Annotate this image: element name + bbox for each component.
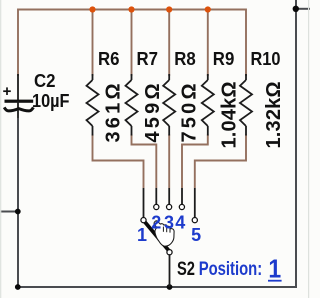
junction dot rail-R9: [205, 6, 211, 12]
switch terminal 4: [179, 204, 184, 209]
svg-text:2: 2: [151, 213, 161, 233]
hand cursor: [154, 221, 174, 246]
svg-text:1.04kΩ: 1.04kΩ: [219, 82, 241, 149]
wire R9 branch top: [207, 10, 209, 77]
junction dot rail-R7: [128, 6, 134, 12]
wire R10 bottom run: [195, 135, 246, 189]
svg-text:361Ω: 361Ω: [103, 84, 125, 143]
switch common terminal: [167, 250, 172, 255]
wire R8 bottom run: [168, 135, 170, 189]
svg-text:4: 4: [175, 213, 185, 233]
junction dot bottom center: [167, 284, 173, 290]
sheet edge left: [0, 0, 2, 298]
svg-text:R9: R9: [213, 49, 235, 69]
svg-text:10µF: 10µF: [32, 91, 70, 111]
svg-text:R10: R10: [251, 49, 281, 69]
wire R9 bottom run: [182, 135, 208, 189]
common stub: [169, 255, 171, 287]
pin label 2: [151, 213, 161, 233]
svg-text:1: 1: [137, 225, 147, 245]
svg-text:S2: S2: [177, 259, 195, 280]
pin label 1: [137, 225, 147, 245]
svg-text:3: 3: [164, 213, 174, 233]
pin label 4: [175, 213, 185, 233]
svg-text:459Ω: 459Ω: [142, 84, 164, 143]
wire R6 bottom run: [93, 135, 144, 189]
pin stub 4: [181, 188, 183, 204]
junction dot bottom left: [15, 284, 21, 290]
sheet edge right: [308, 0, 310, 298]
pin stub 3: [168, 188, 170, 204]
junction dot left: [15, 209, 21, 215]
resistor R9: [202, 49, 241, 149]
pin label 3: [164, 213, 174, 233]
wire left stub to edge: [0, 211, 18, 213]
pin stub 2: [155, 188, 157, 204]
svg-text:1: 1: [268, 254, 281, 284]
wire R6 branch top: [92, 10, 94, 77]
svg-text:1.32kΩ: 1.32kΩ: [263, 82, 285, 149]
capacitor C2: [3, 71, 69, 120]
svg-text:R6: R6: [98, 49, 120, 69]
junction dot top right: [293, 6, 299, 12]
svg-text:5: 5: [191, 225, 201, 245]
wire R8 branch top: [168, 10, 170, 77]
pin label 5: [191, 225, 201, 245]
switch terminal 1: [141, 218, 146, 223]
junction dot rail-R6: [89, 6, 95, 12]
svg-text:R7: R7: [137, 49, 159, 69]
wire R7 branch top: [131, 10, 133, 77]
svg-text:750Ω: 750Ω: [179, 84, 201, 143]
switch arm (common to position 1): [144, 221, 170, 252]
junction dot rail-R8: [166, 6, 172, 12]
resistor R7: [126, 49, 165, 143]
wire R7 bottom run: [132, 135, 157, 189]
switch terminal 5: [192, 218, 197, 223]
switch terminal 3: [167, 204, 172, 209]
pin stub 1: [143, 188, 145, 217]
svg-text:C2: C2: [34, 71, 56, 91]
svg-text:Position:: Position:: [199, 259, 262, 280]
switch terminal 2: [154, 204, 159, 209]
label S2 Position: [177, 254, 282, 284]
resistor R6: [87, 49, 125, 143]
svg-text:R8: R8: [174, 49, 196, 69]
wire top rail (brown net): [18, 10, 246, 77]
switch S2: [144, 188, 195, 287]
resistor R10: [240, 49, 285, 149]
pin stub 5: [194, 188, 196, 217]
wire left vertical (cap to bottom): [17, 118, 19, 287]
wire right stub to edge: [296, 8, 310, 10]
resistor R8: [163, 49, 200, 143]
